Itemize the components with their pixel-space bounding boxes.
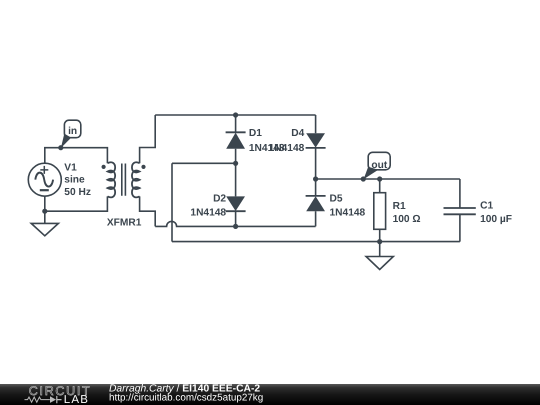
junction dot D2 bottom bbox=[233, 224, 238, 229]
voltage source V1 bbox=[28, 163, 61, 196]
resistor R1 bbox=[374, 179, 386, 242]
wire V1 bottom to transformer primary bottom bbox=[45, 196, 108, 211]
wire R1 to ground bbox=[379, 242, 381, 257]
wire secondary bottom rail with crossover hump bbox=[155, 221, 315, 226]
footer bar bbox=[0, 384, 540, 405]
junction dot R1 top bbox=[377, 176, 382, 181]
diode D4 bbox=[306, 115, 326, 179]
junction dot D1-D2 bbox=[233, 161, 238, 166]
diode D5 bbox=[306, 179, 326, 226]
D1 label bbox=[249, 128, 285, 154]
D5 label bbox=[330, 193, 366, 218]
svg-text:http://circuitlab.com/csdz5atu: http://circuitlab.com/csdz5atup27kg bbox=[109, 393, 263, 404]
junction dot D4-D5-out bbox=[313, 176, 318, 181]
ground (R1) bbox=[366, 257, 393, 270]
wire out rail bbox=[316, 178, 460, 180]
phase dot secondary bbox=[141, 165, 145, 169]
diode D2 bbox=[226, 163, 246, 226]
D2 label bbox=[190, 193, 226, 218]
svg-text:LAB: LAB bbox=[64, 394, 89, 405]
node out label bbox=[364, 152, 391, 179]
diode D1 bbox=[226, 115, 246, 163]
D4 label bbox=[269, 128, 305, 154]
wire top rail bbox=[155, 114, 315, 116]
phase dot primary bbox=[102, 165, 106, 169]
junction dot R1 bottom bbox=[377, 239, 382, 244]
V1 label bbox=[64, 163, 91, 198]
transformer XFMR1 bbox=[108, 162, 140, 197]
wire to ground bbox=[44, 211, 46, 223]
junction dot top rail D1 bbox=[233, 112, 238, 117]
ground (V1) bbox=[31, 223, 58, 235]
wire V1 top to transformer primary top bbox=[45, 148, 108, 164]
C1 label bbox=[480, 200, 512, 224]
wire mid-left rail bbox=[172, 162, 236, 164]
footer credit text bbox=[109, 384, 263, 404]
junction dot out stub bbox=[361, 176, 366, 181]
node in label bbox=[61, 120, 81, 148]
capacitor C1 bbox=[444, 179, 476, 242]
wire left vertical to ground rail bbox=[171, 163, 173, 241]
wire V1 bottom lead bbox=[44, 196, 46, 211]
wire secondary bottom lead bbox=[140, 196, 156, 226]
R1 label bbox=[393, 201, 421, 225]
wire ground rail bbox=[172, 241, 460, 243]
junction dot V1 bottom bbox=[42, 209, 47, 214]
junction dot for in label bbox=[58, 145, 63, 150]
wire secondary top lead bbox=[140, 115, 156, 163]
